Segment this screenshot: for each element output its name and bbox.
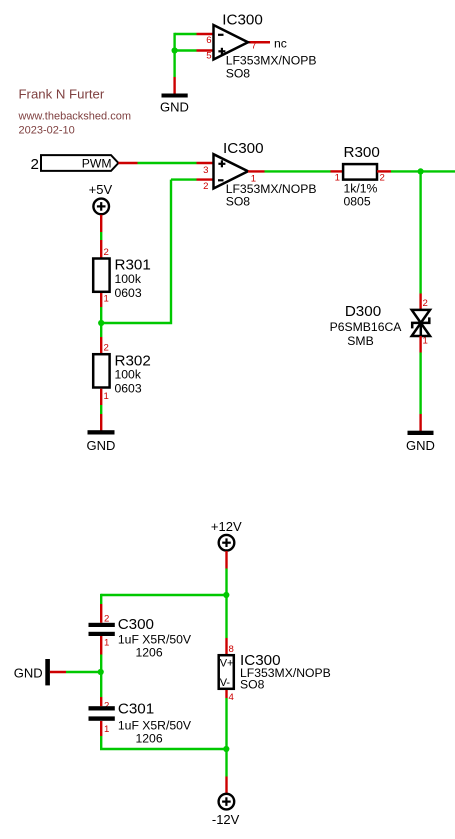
svg-text:1k/1%: 1k/1% <box>344 181 378 195</box>
svg-text:2: 2 <box>31 156 39 173</box>
svg-text:1uF X5R/50V: 1uF X5R/50V <box>118 633 192 647</box>
svg-text:nc: nc <box>274 36 287 50</box>
svg-text:V-: V- <box>220 677 231 689</box>
svg-text:2: 2 <box>203 181 208 192</box>
svg-text:GND: GND <box>160 100 189 115</box>
svg-text:1: 1 <box>104 637 109 648</box>
svg-text:0603: 0603 <box>115 382 142 396</box>
svg-text:2: 2 <box>380 173 385 184</box>
svg-text:1uF X5R/50V: 1uF X5R/50V <box>118 719 192 733</box>
svg-text:R300: R300 <box>344 144 380 161</box>
svg-text:-12V: -12V <box>212 812 240 827</box>
svg-text:Frank N Furter: Frank N Furter <box>19 87 105 102</box>
svg-text:GND: GND <box>87 438 116 453</box>
svg-text:1: 1 <box>104 391 109 402</box>
svg-text:7: 7 <box>251 41 256 52</box>
svg-text:2: 2 <box>104 343 109 354</box>
svg-text:1: 1 <box>104 294 109 305</box>
svg-text:1206: 1206 <box>136 732 163 746</box>
svg-text:SO8: SO8 <box>240 678 265 692</box>
svg-text:0805: 0805 <box>344 194 371 208</box>
svg-text:4: 4 <box>229 692 235 703</box>
svg-text:SO8: SO8 <box>226 194 251 208</box>
svg-text:0603: 0603 <box>115 286 142 300</box>
svg-text:1: 1 <box>335 173 340 184</box>
svg-text:C301: C301 <box>118 701 154 718</box>
svg-text:+12V: +12V <box>211 519 242 534</box>
svg-text:V+: V+ <box>220 658 234 670</box>
svg-text:8: 8 <box>229 644 234 655</box>
svg-text:GND: GND <box>14 666 43 681</box>
svg-text:100k: 100k <box>115 368 142 382</box>
svg-text:P6SMB16CA: P6SMB16CA <box>330 320 403 334</box>
svg-text:2: 2 <box>104 247 109 258</box>
svg-text:SMB: SMB <box>347 334 373 348</box>
svg-text:1: 1 <box>104 724 109 735</box>
svg-text:IC300: IC300 <box>223 140 264 157</box>
svg-text:C300: C300 <box>118 616 154 633</box>
svg-text:2: 2 <box>423 298 428 309</box>
svg-text:6: 6 <box>206 35 211 46</box>
svg-text:D300: D300 <box>345 303 381 320</box>
svg-text:2023-02-10: 2023-02-10 <box>19 125 75 137</box>
svg-text:100k: 100k <box>115 272 142 286</box>
svg-text:LF353MX/NOPB: LF353MX/NOPB <box>226 53 317 67</box>
svg-text:www.thebackshed.com: www.thebackshed.com <box>18 110 132 122</box>
svg-text:IC300: IC300 <box>222 11 263 28</box>
svg-text:3: 3 <box>203 165 208 176</box>
svg-text:PWM: PWM <box>82 157 112 171</box>
svg-text:5: 5 <box>206 51 211 62</box>
svg-text:SO8: SO8 <box>226 66 251 80</box>
svg-text:+5V: +5V <box>89 182 113 197</box>
svg-text:GND: GND <box>406 438 435 453</box>
svg-text:1206: 1206 <box>136 646 163 660</box>
